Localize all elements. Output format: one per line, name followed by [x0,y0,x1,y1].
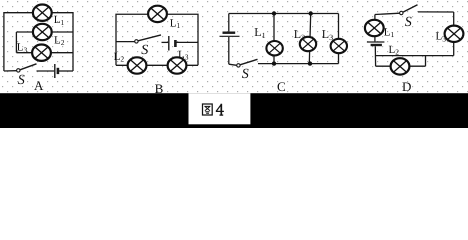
svg-text:A: A [34,78,44,93]
svg-text:D: D [402,79,411,94]
svg-text:S: S [405,15,412,30]
svg-text:S: S [141,43,148,58]
svg-text:S: S [242,67,249,82]
svg-text:S: S [18,73,25,88]
svg-text:C: C [277,79,286,94]
